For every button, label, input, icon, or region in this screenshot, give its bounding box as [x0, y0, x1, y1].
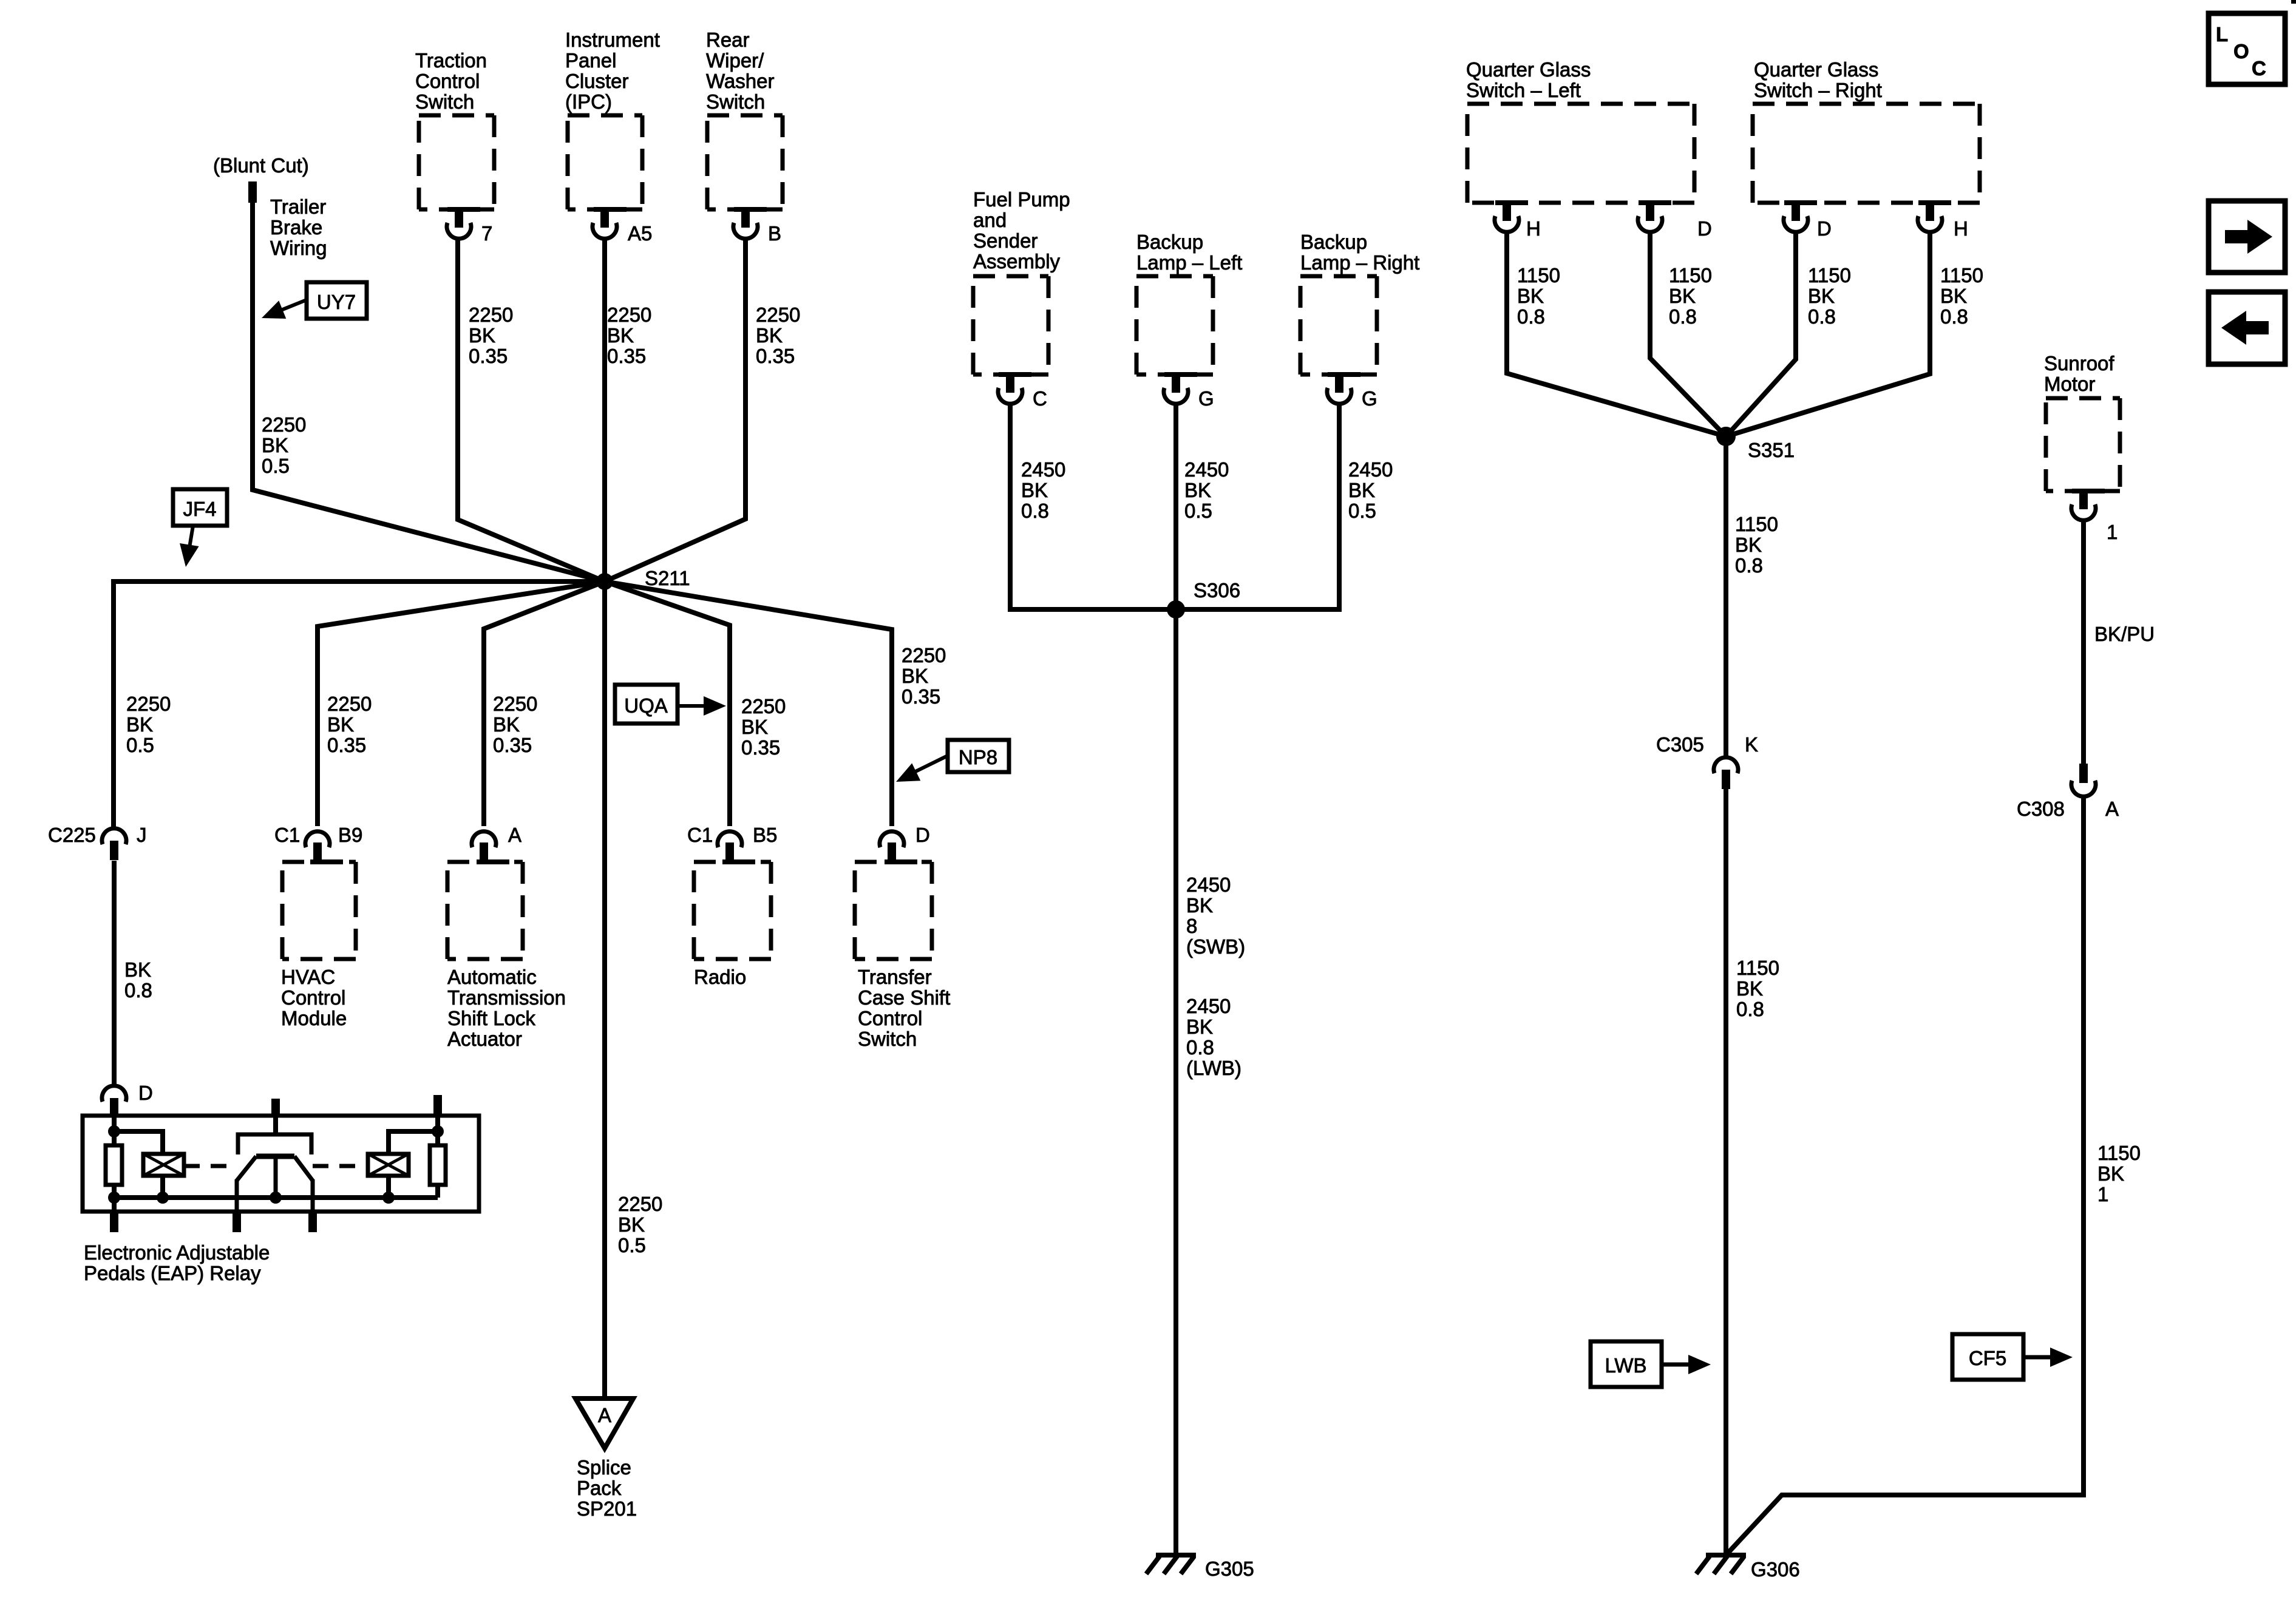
- component Fuel Pump box: [973, 276, 1048, 377]
- svg-text:2450: 2450: [1348, 458, 1393, 481]
- svg-text:Rear: Rear: [706, 29, 750, 51]
- svg-text:0.35: 0.35: [902, 685, 940, 708]
- connector pin C of Fuel Pump: [998, 373, 1047, 410]
- relay bottom pin left: [110, 1198, 118, 1232]
- svg-text:Pedals (EAP) Relay: Pedals (EAP) Relay: [84, 1262, 261, 1284]
- svg-text:B: B: [768, 222, 781, 245]
- svg-text:(IPC): (IPC): [565, 90, 612, 113]
- svg-text:Switch: Switch: [858, 1028, 917, 1050]
- component Automatic Transmission Shift Lock Actuator title: [447, 966, 566, 1050]
- component Quarter Glass Switch Left title: [1466, 58, 1591, 101]
- relay EAP box: [83, 1116, 479, 1212]
- svg-text:Assembly: Assembly: [973, 250, 1061, 273]
- connector pin B of Rear Wiper/Washer Switch: [733, 208, 781, 245]
- component Sunroof Motor box: [2046, 398, 2120, 493]
- relay contact bracket: [238, 1134, 311, 1154]
- wire Sunroof Motor to C308: [2081, 521, 2086, 764]
- page corner artifact mark: [2291, 0, 2296, 4]
- svg-text:2250: 2250: [618, 1193, 662, 1215]
- wire trailer brake (blunt cut stub): [248, 181, 257, 203]
- svg-text:0.35: 0.35: [493, 734, 532, 756]
- relay armature leg right: [308, 1179, 317, 1232]
- component Quarter Glass Switch Right box: [1753, 104, 1980, 205]
- wire C305 to G306: [1724, 789, 1728, 1554]
- svg-text:A: A: [508, 824, 521, 846]
- wire Rear Wiper/Washer Switch to S211: [605, 239, 746, 581]
- relay wire right solenoid to bus: [386, 1176, 391, 1198]
- svg-text:C1: C1: [687, 824, 713, 846]
- svg-text:0.8: 0.8: [1517, 305, 1545, 328]
- svg-text:Automatic: Automatic: [447, 966, 537, 988]
- wire QG Right H to S351: [1726, 232, 1930, 436]
- svg-text:S351: S351: [1748, 439, 1795, 461]
- svg-text:Backup: Backup: [1136, 231, 1203, 253]
- svg-text:BK: BK: [124, 958, 151, 981]
- svg-text:2250: 2250: [469, 303, 513, 326]
- svg-text:D: D: [1817, 217, 1832, 240]
- connector pin H of QG Switch Right: [1918, 202, 1968, 240]
- label wire 1150 BK 0.8 qg3: [1808, 264, 1851, 328]
- svg-text:1: 1: [2107, 521, 2118, 543]
- svg-text:0.35: 0.35: [756, 345, 795, 367]
- svg-text:1: 1: [2097, 1183, 2108, 1205]
- splice S351: [1716, 427, 1795, 461]
- svg-text:Case Shift: Case Shift: [858, 986, 950, 1009]
- component Rear Wiper/Washer Switch box: [707, 115, 783, 212]
- svg-text:(LWB): (LWB): [1186, 1057, 1241, 1079]
- svg-text:2250: 2250: [126, 693, 171, 715]
- svg-text:G305: G305: [1205, 1558, 1254, 1580]
- connector pin D of QG Switch Right: [1784, 202, 1832, 240]
- svg-text:H: H: [1526, 217, 1541, 240]
- relay pin D lead inside: [112, 1117, 117, 1131]
- component Backup Lamp Left title: [1136, 231, 1242, 274]
- svg-text:C1: C1: [274, 824, 300, 846]
- component Fuel Pump and Sender Assembly title: [973, 188, 1070, 273]
- svg-text:BK: BK: [741, 716, 768, 738]
- svg-text:0.8: 0.8: [1940, 305, 1968, 328]
- relay solenoid left: [143, 1154, 184, 1176]
- connector pin G of Backup Lamp Left: [1164, 373, 1214, 410]
- label wire 1150 BK 0.8 s351: [1735, 513, 1778, 577]
- svg-text:Motor: Motor: [2044, 373, 2095, 395]
- label wire 2250 BK 0.35 wiper: [756, 303, 800, 367]
- relay title: [84, 1241, 270, 1284]
- label wire 1150 BK 0.8 qg4: [1940, 264, 1983, 328]
- connector pin H of QG Switch Left: [1495, 202, 1541, 240]
- svg-text:2250: 2250: [741, 695, 786, 717]
- connector C308 A: [2017, 764, 2119, 820]
- relay solenoid right: [368, 1154, 409, 1176]
- svg-text:Electronic Adjustable: Electronic Adjustable: [84, 1241, 270, 1264]
- label (Blunt Cut): [213, 154, 309, 177]
- svg-text:0.35: 0.35: [469, 345, 508, 367]
- svg-text:J: J: [137, 824, 147, 846]
- svg-text:Sender: Sender: [973, 229, 1038, 252]
- svg-text:BK: BK: [607, 324, 634, 347]
- wire Fuel Pump to S306: [1010, 404, 1176, 609]
- component Instrument Panel Cluster box: [568, 115, 642, 212]
- svg-text:BK: BK: [1021, 479, 1048, 501]
- connector C225 J: [48, 824, 147, 860]
- relay node top-left: [108, 1125, 120, 1137]
- component Rear Wiper/Washer Switch title: [706, 29, 774, 113]
- relay top pin right stub: [433, 1095, 442, 1131]
- svg-text:Trailer: Trailer: [270, 195, 326, 218]
- relay node bus-left2: [157, 1192, 169, 1204]
- component Quarter Glass Switch Right title: [1754, 58, 1882, 101]
- wire QG Left D to S351: [1650, 232, 1726, 436]
- svg-text:K: K: [1745, 733, 1758, 756]
- label wire 2250 BK 0.35 radio: [741, 695, 786, 759]
- component Backup Lamp Left box: [1136, 276, 1213, 377]
- component Backup Lamp Right title: [1300, 231, 1419, 274]
- svg-text:0.5: 0.5: [618, 1234, 646, 1256]
- svg-text:NP8: NP8: [959, 746, 997, 768]
- component HVAC Control Module title: [281, 966, 347, 1029]
- svg-text:BK/PU: BK/PU: [2094, 623, 2155, 645]
- component Traction Control Switch box: [419, 115, 494, 212]
- svg-text:2250: 2250: [756, 303, 800, 326]
- svg-text:Module: Module: [281, 1007, 347, 1029]
- component Sunroof Motor title: [2044, 352, 2114, 395]
- label wire 2250 BK 0.35 IPC: [607, 303, 651, 367]
- svg-text:1150: 1150: [1940, 264, 1983, 286]
- svg-text:0.8: 0.8: [124, 979, 152, 1002]
- svg-text:Sunroof: Sunroof: [2044, 352, 2114, 375]
- label Trailer Brake Wiring: [270, 195, 327, 259]
- component Radio box: [694, 859, 771, 959]
- svg-text:(Blunt Cut): (Blunt Cut): [213, 154, 309, 177]
- label wire 1150 BK 0.8 qg1: [1517, 264, 1560, 328]
- svg-text:1150: 1150: [1669, 264, 1712, 286]
- relay armature: [237, 1156, 313, 1198]
- svg-text:BK: BK: [1517, 285, 1544, 307]
- svg-text:2450: 2450: [1021, 458, 1065, 481]
- connector pin 7 of Traction Control Switch: [447, 208, 492, 245]
- label wire 2450 BK 0.8 fuel: [1021, 458, 1065, 522]
- wire trailer brake to S211: [253, 202, 605, 581]
- svg-text:Switch: Switch: [415, 90, 474, 113]
- label wire 2250 BK 0.5 trailer: [262, 413, 306, 477]
- svg-text:Control: Control: [281, 986, 345, 1009]
- svg-text:LWB: LWB: [1605, 1354, 1646, 1377]
- relay node bus-center: [270, 1192, 282, 1204]
- svg-text:C225: C225: [48, 824, 96, 846]
- relay resistor right: [430, 1131, 446, 1198]
- svg-text:D: D: [138, 1082, 153, 1104]
- svg-text:BK: BK: [126, 713, 153, 736]
- wire QG Left H to S351: [1507, 232, 1726, 436]
- connector pin D of QG Switch Left: [1638, 202, 1712, 240]
- svg-text:BK: BK: [1735, 534, 1762, 556]
- svg-text:Quarter Glass: Quarter Glass: [1754, 58, 1878, 81]
- svg-text:and: and: [973, 209, 1007, 231]
- component Transfer Case Shift Control Switch box: [855, 859, 932, 959]
- svg-text:Actuator: Actuator: [447, 1028, 522, 1050]
- label wire 1150 BK 1: [2097, 1142, 2141, 1205]
- wire Backup Lamp Right to S306: [1176, 404, 1339, 609]
- label wire BK/PU: [2094, 623, 2155, 645]
- svg-text:G: G: [1198, 387, 1214, 410]
- svg-text:7: 7: [481, 222, 492, 245]
- svg-text:Washer: Washer: [706, 70, 774, 92]
- icon LOC box: [2209, 13, 2285, 84]
- svg-text:0.5: 0.5: [1184, 500, 1212, 522]
- component Instrument Panel Cluster title: [565, 29, 660, 113]
- svg-text:0.5: 0.5: [126, 734, 154, 756]
- svg-text:Panel: Panel: [565, 49, 616, 72]
- svg-text:C305: C305: [1656, 733, 1704, 756]
- svg-text:A: A: [2105, 798, 2119, 820]
- svg-text:0.35: 0.35: [607, 345, 646, 367]
- callout JF4: [173, 489, 227, 567]
- svg-text:G306: G306: [1751, 1558, 1800, 1581]
- label wire 2450 BK 0.5 backupL: [1184, 458, 1229, 522]
- svg-text:Switch – Left: Switch – Left: [1466, 79, 1581, 101]
- label wire 2250 BK 0.35 shiftlock: [493, 693, 537, 756]
- svg-text:Brake: Brake: [270, 216, 322, 239]
- svg-text:0.8: 0.8: [1736, 998, 1764, 1020]
- svg-text:Splice: Splice: [577, 1456, 631, 1479]
- svg-text:BK: BK: [493, 713, 520, 736]
- svg-text:BK: BK: [1186, 1015, 1213, 1038]
- svg-text:A5: A5: [628, 222, 652, 245]
- callout UQA: [615, 685, 726, 724]
- relay armature leg left: [233, 1179, 241, 1232]
- callout UY7: [262, 282, 367, 319]
- relay wire left solenoid to bus: [160, 1176, 165, 1198]
- svg-text:C308: C308: [2017, 798, 2065, 820]
- svg-text:0.8: 0.8: [1808, 305, 1836, 328]
- svg-text:Radio: Radio: [694, 966, 746, 988]
- svg-text:D: D: [915, 824, 930, 846]
- component Radio title: [694, 966, 746, 988]
- svg-text:BK: BK: [756, 324, 783, 347]
- svg-text:JF4: JF4: [183, 498, 216, 520]
- svg-text:BK: BK: [262, 434, 288, 456]
- icon arrow right: [2209, 201, 2285, 273]
- component Quarter Glass Switch Left box: [1467, 104, 1694, 205]
- connector pin 1 of Sunroof Motor: [2071, 490, 2118, 543]
- connector A of Shift Lock Actuator: [472, 824, 521, 863]
- component Traction Control Switch title: [415, 49, 487, 113]
- svg-text:Transfer: Transfer: [858, 966, 932, 988]
- relay top pin center stub: [271, 1099, 280, 1134]
- svg-text:BK: BK: [618, 1213, 645, 1236]
- svg-text:1150: 1150: [1808, 264, 1851, 286]
- svg-text:Wiring: Wiring: [270, 237, 327, 259]
- svg-text:1150: 1150: [2097, 1142, 2141, 1164]
- svg-text:0.5: 0.5: [262, 455, 290, 477]
- callout NP8: [896, 740, 1009, 782]
- relay bottom bus: [114, 1195, 438, 1200]
- wire S211 to HVAC B9: [318, 581, 605, 826]
- label wire 2250 BK 0.35 HVAC: [327, 693, 372, 756]
- svg-text:Switch: Switch: [706, 90, 765, 113]
- component Automatic Transmission Shift Lock Actuator box: [447, 859, 523, 959]
- svg-text:BK: BK: [1186, 894, 1213, 917]
- relay node bus-right: [382, 1192, 395, 1204]
- connector pin G of Backup Lamp Right: [1327, 373, 1377, 410]
- label wire 2250 BK 0.35 transfer: [902, 644, 946, 708]
- wire JF4 branch S211 to C225: [114, 581, 605, 827]
- svg-text:S306: S306: [1194, 579, 1240, 602]
- svg-text:CF5: CF5: [1969, 1347, 2006, 1369]
- svg-text:Traction: Traction: [415, 49, 487, 72]
- svg-text:2250: 2250: [262, 413, 306, 436]
- svg-text:Fuel Pump: Fuel Pump: [973, 188, 1070, 211]
- component Transfer Case Shift Control Switch title: [858, 966, 950, 1050]
- svg-text:H: H: [1954, 217, 1968, 240]
- connector D of Transfer Case Switch: [880, 824, 930, 863]
- svg-text:D: D: [1697, 217, 1712, 240]
- component Backup Lamp Right box: [1300, 276, 1377, 377]
- label wire 2450 BK 8 (SWB): [1186, 873, 1245, 958]
- svg-text:UQA: UQA: [624, 694, 668, 717]
- svg-text:Control: Control: [858, 1007, 922, 1029]
- svg-text:O: O: [2233, 40, 2249, 63]
- svg-text:Transmission: Transmission: [447, 986, 566, 1009]
- svg-text:2450: 2450: [1184, 458, 1229, 481]
- label wire 2250 BK 0.5 JF4: [126, 693, 171, 756]
- svg-text:HVAC: HVAC: [281, 966, 335, 988]
- label wire 2450 BK 0.8 (LWB): [1186, 995, 1241, 1079]
- svg-text:Backup: Backup: [1300, 231, 1367, 253]
- wire S211 to Transfer Case D: [605, 581, 892, 826]
- svg-text:0.35: 0.35: [327, 734, 366, 756]
- wire S211 to Radio B5: [605, 581, 730, 826]
- svg-text:BK: BK: [1348, 479, 1375, 501]
- svg-text:BK: BK: [469, 324, 495, 347]
- svg-text:0.8: 0.8: [1669, 305, 1697, 328]
- svg-text:Lamp – Left: Lamp – Left: [1136, 251, 1242, 274]
- relay dashed link right: [313, 1164, 368, 1168]
- svg-text:2250: 2250: [607, 303, 651, 326]
- svg-text:2250: 2250: [902, 644, 946, 666]
- svg-text:C: C: [2252, 57, 2266, 80]
- connector C1 B9 of HVAC: [274, 824, 362, 863]
- wire C308 to G306: [1726, 798, 2084, 1555]
- wire Traction Control Switch to S211: [458, 239, 605, 581]
- ground G306: [1696, 1555, 1800, 1581]
- svg-text:2250: 2250: [327, 693, 372, 715]
- svg-text:0.8: 0.8: [1735, 554, 1763, 577]
- label wire 1150 BK 0.8 lower: [1736, 957, 1779, 1020]
- svg-text:Pack: Pack: [577, 1477, 622, 1499]
- svg-text:G: G: [1362, 387, 1377, 410]
- svg-text:8: 8: [1186, 915, 1197, 937]
- svg-text:Switch – Right: Switch – Right: [1754, 79, 1882, 101]
- svg-text:B5: B5: [753, 824, 777, 846]
- svg-text:1150: 1150: [1735, 513, 1778, 535]
- svg-text:1150: 1150: [1517, 264, 1560, 286]
- relay wire to right solenoid: [389, 1131, 438, 1154]
- svg-text:2450: 2450: [1186, 873, 1231, 896]
- icon arrow left: [2209, 292, 2285, 364]
- svg-text:Instrument: Instrument: [565, 29, 660, 51]
- svg-text:0.8: 0.8: [1021, 500, 1049, 522]
- svg-text:BK: BK: [1940, 285, 1967, 307]
- label wire 1150 BK 0.8 qg2: [1669, 264, 1712, 328]
- relay resistor left: [106, 1131, 122, 1198]
- svg-text:BK: BK: [902, 665, 928, 687]
- svg-text:0.35: 0.35: [741, 736, 780, 759]
- svg-text:A: A: [598, 1404, 611, 1426]
- svg-text:BK: BK: [1808, 285, 1835, 307]
- svg-text:SP201: SP201: [577, 1497, 637, 1520]
- svg-text:L: L: [2216, 23, 2228, 46]
- splice pack SP201 triangle: [576, 1398, 633, 1448]
- relay dashed link left: [184, 1164, 237, 1168]
- relay node bus-left: [108, 1192, 120, 1204]
- svg-text:C: C: [1033, 387, 1047, 410]
- wire QG Right D to S351: [1726, 232, 1796, 436]
- svg-text:S211: S211: [645, 567, 690, 589]
- svg-text:UY7: UY7: [317, 291, 356, 313]
- svg-text:0.5: 0.5: [1348, 500, 1376, 522]
- svg-text:BK: BK: [2097, 1162, 2124, 1185]
- svg-text:0.8: 0.8: [1186, 1036, 1214, 1059]
- svg-text:Shift Lock: Shift Lock: [447, 1007, 535, 1029]
- callout LWB: [1591, 1341, 1711, 1387]
- label wire 2450 BK 0.5 backupR: [1348, 458, 1393, 522]
- connector C1 B5 of Radio: [687, 824, 777, 863]
- connector pin A5 of IPC: [593, 208, 652, 245]
- splice S211: [596, 567, 690, 590]
- ground G305: [1146, 1555, 1254, 1580]
- wire S351 to C305: [1724, 436, 1728, 756]
- callout CF5: [1952, 1334, 2073, 1380]
- component HVAC Control Module box: [282, 859, 356, 959]
- connector D of EAP relay: [102, 1082, 153, 1117]
- svg-text:Control: Control: [415, 70, 480, 92]
- svg-text:B9: B9: [338, 824, 362, 846]
- svg-text:BK: BK: [1669, 285, 1696, 307]
- label wire BK 0.8: [124, 958, 152, 1002]
- splice pack SP201 title: [577, 1456, 637, 1520]
- wire Backup Lamp Left to G305: [1173, 404, 1178, 1554]
- wire S211 to Shift Lock A: [484, 581, 605, 826]
- label wire 2250 BK 0.5 splice: [618, 1193, 662, 1256]
- connector C305 K: [1656, 733, 1758, 789]
- svg-text:Cluster: Cluster: [565, 70, 629, 92]
- relay wire to left solenoid: [114, 1131, 163, 1154]
- relay node top-right: [432, 1125, 444, 1137]
- svg-text:Wiper/: Wiper/: [706, 49, 764, 72]
- label wire 2250 BK 0.35 traction: [469, 303, 513, 367]
- svg-text:Quarter Glass: Quarter Glass: [1466, 58, 1591, 81]
- svg-text:(SWB): (SWB): [1186, 935, 1245, 958]
- splice S306: [1167, 579, 1240, 619]
- svg-text:Lamp – Right: Lamp – Right: [1300, 251, 1419, 274]
- svg-text:2450: 2450: [1186, 995, 1231, 1017]
- svg-text:BK: BK: [327, 713, 354, 736]
- svg-text:BK: BK: [1184, 479, 1211, 501]
- wire IPC to S211 to Splice Pack: [602, 239, 607, 1398]
- svg-text:2250: 2250: [493, 693, 537, 715]
- svg-text:BK: BK: [1736, 977, 1763, 1000]
- wire C225 to EAP relay D: [112, 861, 117, 1084]
- svg-text:1150: 1150: [1736, 957, 1779, 979]
